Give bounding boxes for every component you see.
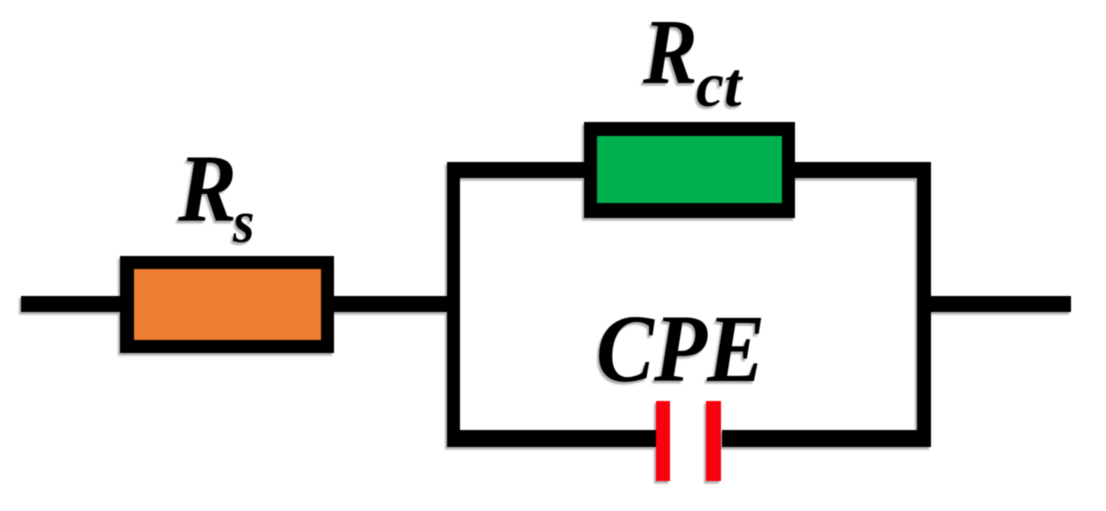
capacitor CPE right plate (red) [706,401,721,481]
capacitor CPE left plate (red) [656,401,670,481]
wire parallel-loop left bar [447,162,460,447]
wire right lead out of parallel block [931,296,1071,312]
svg-text:R: R [177,136,237,242]
wire parallel-loop top bar [447,162,931,178]
wire parallel-loop bottom bar left segment [447,430,657,447]
svg-text:R: R [642,0,698,103]
wire left lead into Rs and on to parallel block [21,296,460,312]
label Rs [177,136,254,256]
label Rct [642,0,744,120]
resistor Rct (green) [584,122,795,218]
svg-text:s: s [232,190,254,256]
wire parallel-loop bottom bar right segment [722,430,931,447]
svg-text:CPE: CPE [596,295,765,402]
resistor Rs (orange) [120,256,334,353]
wire parallel-loop right bar [917,162,931,447]
svg-text:ct: ct [696,50,744,120]
